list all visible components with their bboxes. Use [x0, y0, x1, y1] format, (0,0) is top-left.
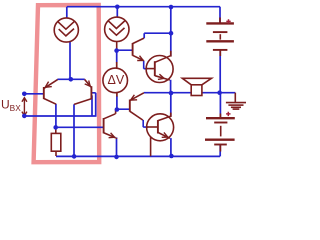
- node input bottom terminal: [22, 114, 27, 119]
- ground: [226, 93, 246, 109]
- wire red stubs battery V1: [219, 18, 221, 152]
- node rail-I2: [115, 5, 120, 10]
- wire battery V2 bottom to rail corner: [219, 145, 221, 156]
- current source I2: [105, 17, 129, 41]
- wire delta-V bottom to node B: [116, 93, 118, 97]
- node input top terminal: [22, 92, 27, 97]
- transistor Q5 (driver pnp): [130, 93, 144, 120]
- wire Q2 collector drop to bottom rail: [73, 104, 75, 156]
- node rail-Q2 collector: [72, 154, 77, 159]
- battery V1 (upper supply): [206, 23, 234, 50]
- node dots: [22, 5, 222, 160]
- speaker LS1: [182, 78, 211, 95]
- wire current source I1 top stub: [66, 7, 68, 19]
- wire node A to Q3 base: [117, 49, 133, 51]
- node rail-Q6 emitter: [169, 154, 174, 159]
- node battery midpoint: [217, 90, 222, 95]
- svg-text:UBX: UBX: [1, 98, 21, 113]
- battery V2 (lower supply): [205, 118, 235, 144]
- node emitter rail: [69, 77, 74, 82]
- node rail-Q7 emitter: [114, 155, 119, 160]
- resistor R1: [51, 128, 61, 157]
- wire input top terminal to Q1 base: [24, 93, 44, 95]
- delta-V bias source: [103, 68, 128, 93]
- wire current source I2 top stub: [116, 7, 118, 18]
- transistor Q7 (vas npn): [104, 110, 117, 139]
- wire emitter rail of input pair: [57, 78, 84, 80]
- wire current source I2 bottom to node A: [116, 42, 118, 51]
- node output: [169, 91, 174, 96]
- wire Q6 collector up to output node: [170, 93, 172, 116]
- node rail-output branch: [169, 5, 174, 10]
- node B: [115, 107, 120, 112]
- wire red stub above Q4: [170, 51, 172, 57]
- wire midpoint node down to battery V2: [219, 93, 221, 118]
- node Q3/Q4 collector branch: [169, 31, 174, 36]
- transistor Q3 (driver npn): [133, 38, 144, 60]
- wire +V branch to Q3/Q4 collectors: [144, 7, 171, 57]
- node A: [114, 48, 119, 53]
- highlight box: [34, 5, 100, 162]
- transistor Q1 (input pair left, pnp): [44, 80, 58, 105]
- transistor Q6 (output npn, in circle): [147, 114, 174, 156]
- wire battery V1 top connection: [219, 7, 221, 23]
- wire bottom supply rail: [56, 155, 220, 157]
- wire Q1 collector drop: [55, 104, 57, 128]
- svg-text:ΔV: ΔV: [108, 73, 125, 87]
- battery V2 plus label: [226, 112, 230, 116]
- transistor Q4 (output npn, in circle): [146, 56, 173, 83]
- wire Q6 emitter down to bottom rail: [170, 138, 172, 156]
- wire Q1 collector node to Q7 base: [56, 126, 104, 128]
- battery V1 plus label: [226, 19, 230, 23]
- wire output line to speaker and ground: [144, 92, 236, 94]
- wire red stub above Q6: [170, 113, 172, 117]
- wire Q4 emitter to output node: [170, 80, 172, 93]
- wire node B to Q5 base: [117, 108, 130, 110]
- input voltage arrow: [22, 98, 27, 116]
- wire top supply rail: [67, 6, 220, 8]
- wire node A down to delta-V top: [116, 51, 118, 63]
- wire Q7 emitter drop: [116, 137, 118, 156]
- transistor Q2 (input pair right, pnp): [74, 80, 91, 105]
- wire Q3 emitter to Q4 base: [144, 61, 148, 69]
- wire input bottom terminal to Q2 base loop: [24, 93, 95, 117]
- wire Q5 collector to Q6 base: [143, 120, 148, 127]
- wire battery V1 bottom to midpoint node: [219, 51, 221, 93]
- current source I1: [54, 18, 78, 42]
- wire current source I1 bottom to emitter node: [69, 42, 71, 80]
- node Q1 collector / R1: [53, 125, 58, 130]
